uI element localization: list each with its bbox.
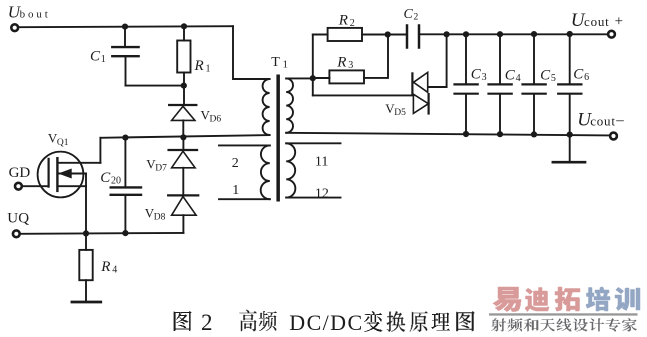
ground (output) [569, 135, 571, 161]
wire left rail of clamp (R2/R3 left) [312, 35, 314, 96]
watermark slogan char 线 [557, 318, 572, 331]
label R2 [338, 13, 355, 30]
svg-text:R: R [338, 13, 348, 29]
T1 secondary bottom winding pin11 lead [286, 142, 340, 144]
caption char 高 [239, 310, 257, 332]
watermark slogan char 射 [491, 318, 506, 331]
wire VD5 right up to rail [428, 34, 447, 87]
label C3 [471, 67, 487, 84]
watermark slogan char 专 [606, 318, 621, 331]
svg-text:1: 1 [101, 54, 106, 65]
label T1 [271, 55, 288, 71]
svg-text:R: R [194, 58, 204, 74]
ground (R4) [72, 301, 101, 304]
svg-text:1: 1 [232, 183, 239, 198]
capacitor C3 [455, 34, 478, 134]
svg-text:12: 12 [315, 187, 329, 202]
label C5 [540, 67, 556, 84]
label R4 [100, 259, 117, 276]
wire gate [23, 185, 48, 187]
resistor R1 [177, 26, 190, 104]
label VD7 [146, 157, 167, 174]
svg-text:DC/DC: DC/DC [289, 310, 363, 335]
T1 secondary top winding [286, 78, 293, 132]
svg-text:6: 6 [584, 72, 589, 83]
T1 secondary bottom winding [286, 143, 295, 197]
terminal Ucout+ [608, 31, 615, 38]
svg-text:R: R [100, 259, 110, 275]
svg-text:4: 4 [516, 73, 521, 84]
label R3 [336, 55, 353, 72]
wire mid rail (drain node) [100, 135, 269, 138]
svg-text:D6: D6 [210, 115, 222, 125]
svg-text:Q1: Q1 [57, 138, 69, 148]
svg-text:cout: cout [584, 14, 610, 29]
svg-text:2: 2 [232, 156, 239, 171]
watermark char 迪 [525, 288, 549, 312]
label Ucout- [577, 110, 624, 131]
caption char 图 [174, 311, 192, 331]
svg-text:C: C [505, 67, 516, 83]
svg-text:C: C [404, 7, 414, 22]
svg-text:2: 2 [201, 310, 213, 335]
wire top rail Ubout to corner [19, 26, 233, 27]
svg-text:+: + [615, 14, 623, 30]
capacitor C5 [523, 34, 546, 134]
transistor VQ1 MOSFET [38, 138, 101, 234]
watermark slogan char 计 [590, 318, 605, 331]
svg-text:D5: D5 [394, 108, 406, 118]
resistor R2 [313, 28, 388, 41]
label VD5 [385, 101, 406, 118]
terminal GD [15, 183, 22, 190]
svg-text:cout: cout [590, 114, 616, 129]
watermark slogan char 天 [540, 318, 555, 331]
T1 secondary bottom winding pin12 lead [286, 197, 340, 199]
wire C1 bottom to R1 bottom [126, 85, 184, 87]
label VD6 [201, 108, 222, 125]
svg-text:3: 3 [482, 72, 487, 83]
terminal UQ [13, 230, 20, 237]
watermark char 易 [493, 287, 521, 312]
svg-text:3: 3 [348, 60, 353, 71]
label C1 [90, 49, 106, 65]
svg-text:4: 4 [112, 264, 117, 275]
svg-text:UQ: UQ [7, 211, 29, 227]
label C6 [573, 67, 589, 84]
caption char 变 [364, 311, 383, 332]
wire T1 secondary top lead [286, 77, 313, 79]
wire corner down to T1 primary top [233, 26, 270, 79]
watermark char 培 [586, 287, 610, 311]
wire top output rail [447, 33, 608, 35]
svg-text:C: C [100, 170, 111, 186]
diode VD7 [169, 137, 197, 194]
wire UQ rail [21, 232, 184, 235]
T1 primary top winding [263, 79, 270, 135]
diode VD8 [168, 195, 198, 233]
wire to VD5 left [313, 94, 413, 96]
svg-text:2: 2 [414, 13, 419, 23]
svg-text:–: – [615, 113, 624, 129]
resistor R4 [79, 233, 92, 301]
watermark slogan char 和 [524, 318, 539, 331]
svg-text:R: R [336, 55, 346, 71]
T1 primary bottom winding pin1 lead [219, 198, 270, 200]
label Ucout+ [571, 10, 623, 31]
label VD8 [145, 206, 166, 223]
caption char 原 [410, 311, 428, 332]
caption char 换 [387, 311, 406, 332]
capacitor C1 [112, 27, 138, 86]
svg-text:5: 5 [551, 73, 556, 84]
capacitor C4 [489, 34, 512, 134]
label VQ1 [48, 131, 69, 149]
T1 primary bottom winding [261, 145, 270, 199]
capacitor C6 [558, 34, 581, 135]
capacitor C2 [407, 26, 447, 48]
terminal Ubout [11, 24, 18, 31]
label R1 [194, 58, 211, 75]
label C20 [100, 170, 121, 187]
svg-text:D7: D7 [155, 164, 167, 174]
watermark divider [489, 313, 638, 315]
label C2 [404, 7, 419, 23]
label Ubout [8, 2, 51, 21]
wire bottom output rail [286, 133, 609, 136]
diode VD5 bidirectional [412, 72, 428, 113]
T1 primary bottom winding pin2 lead [219, 144, 270, 146]
svg-text:2: 2 [350, 18, 355, 29]
watermark slogan char 设 [573, 318, 588, 331]
caption char 频 [259, 311, 277, 331]
svg-text:20: 20 [111, 175, 121, 186]
svg-text:C: C [90, 49, 101, 65]
svg-text:GD: GD [9, 165, 31, 181]
caption char 理 [432, 313, 451, 331]
caption char 图 (2nd) [456, 311, 475, 331]
svg-text:C: C [540, 67, 551, 83]
svg-text:C: C [573, 67, 584, 83]
capacitor C20 [111, 138, 141, 234]
transformer T1 core [276, 75, 280, 202]
watermark slogan char 家 [622, 318, 637, 331]
svg-text:bout: bout [20, 8, 51, 20]
svg-text:1: 1 [206, 63, 211, 74]
svg-text:1: 1 [283, 59, 289, 71]
watermark slogan char 频 [507, 318, 522, 331]
watermark char 训 [615, 288, 640, 311]
wire R right junction to C2 [388, 34, 406, 36]
diode VD6 [169, 105, 196, 137]
label C4 [505, 67, 521, 84]
terminal Ucout- [610, 133, 617, 140]
svg-text:C: C [471, 67, 482, 83]
svg-text:11: 11 [315, 155, 328, 170]
resistor R3 [313, 35, 388, 84]
svg-text:T: T [271, 55, 280, 70]
svg-text:D8: D8 [154, 213, 166, 223]
watermark char 拓 [555, 287, 580, 311]
